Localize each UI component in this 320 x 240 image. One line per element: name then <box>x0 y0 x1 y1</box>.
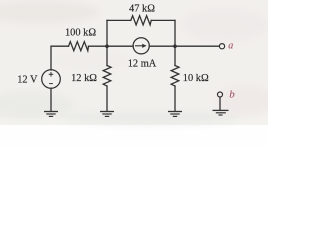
faint scan mottling <box>0 0 275 125</box>
node junction left (R1/R2/R3/I1) <box>105 44 109 48</box>
resistor R1 100 kOhm zigzag <box>69 42 89 51</box>
ground (below R3 12 kOhm) <box>100 112 114 117</box>
wire: 47k loop right vertical <box>174 20 176 46</box>
voltage source V1 12 V circle <box>42 70 61 89</box>
svg-text:10 kΩ: 10 kΩ <box>183 73 209 84</box>
wire: current source right to node a branch <box>149 45 175 47</box>
svg-text:b: b <box>229 89 235 101</box>
svg-text:a: a <box>228 41 233 52</box>
svg-text:12 kΩ: 12 kΩ <box>71 73 97 84</box>
ground (below R4 10 kOhm) <box>168 112 182 117</box>
node junction right (R2/R4/I1/a) <box>173 44 177 48</box>
svg-text:47 kΩ: 47 kΩ <box>129 3 155 14</box>
wire: 47k loop left vertical <box>106 20 108 46</box>
wire: terminal b to its ground <box>219 97 221 110</box>
terminal b open circle <box>218 92 223 97</box>
current source I1 12 mA circle <box>133 38 149 54</box>
wire: 100k to current source left <box>89 45 134 47</box>
wire: left junction down to 12k <box>106 46 108 65</box>
scanned page background <box>0 0 268 125</box>
wire: right junction to terminal a <box>175 45 220 47</box>
ground (below terminal b) <box>213 110 229 115</box>
svg-text:100 kΩ: 100 kΩ <box>65 28 96 39</box>
V1 plus sign <box>49 72 54 77</box>
wire: 12k to ground <box>106 86 108 111</box>
resistor R2 47 kOhm zigzag <box>131 16 151 25</box>
current source I1 arrow <box>135 45 143 47</box>
svg-text:12 V: 12 V <box>17 74 38 85</box>
resistor R4 10 kOhm zigzag (vertical) <box>171 66 179 87</box>
svg-text:12 mA: 12 mA <box>128 59 157 70</box>
wire: top rail right segment <box>151 19 175 21</box>
wire: 10k to ground <box>174 86 176 111</box>
ground (below V1) <box>44 112 58 117</box>
V1 minus sign <box>49 83 53 85</box>
wire: 12V source bottom to ground <box>50 88 52 111</box>
wire: right junction down to 10k <box>174 46 176 65</box>
terminal a open circle <box>219 44 224 49</box>
wire: top rail left segment <box>107 19 131 21</box>
resistor R3 12 kOhm zigzag (vertical) <box>103 66 111 87</box>
wire: 12V source top to middle rail corner <box>51 46 69 70</box>
